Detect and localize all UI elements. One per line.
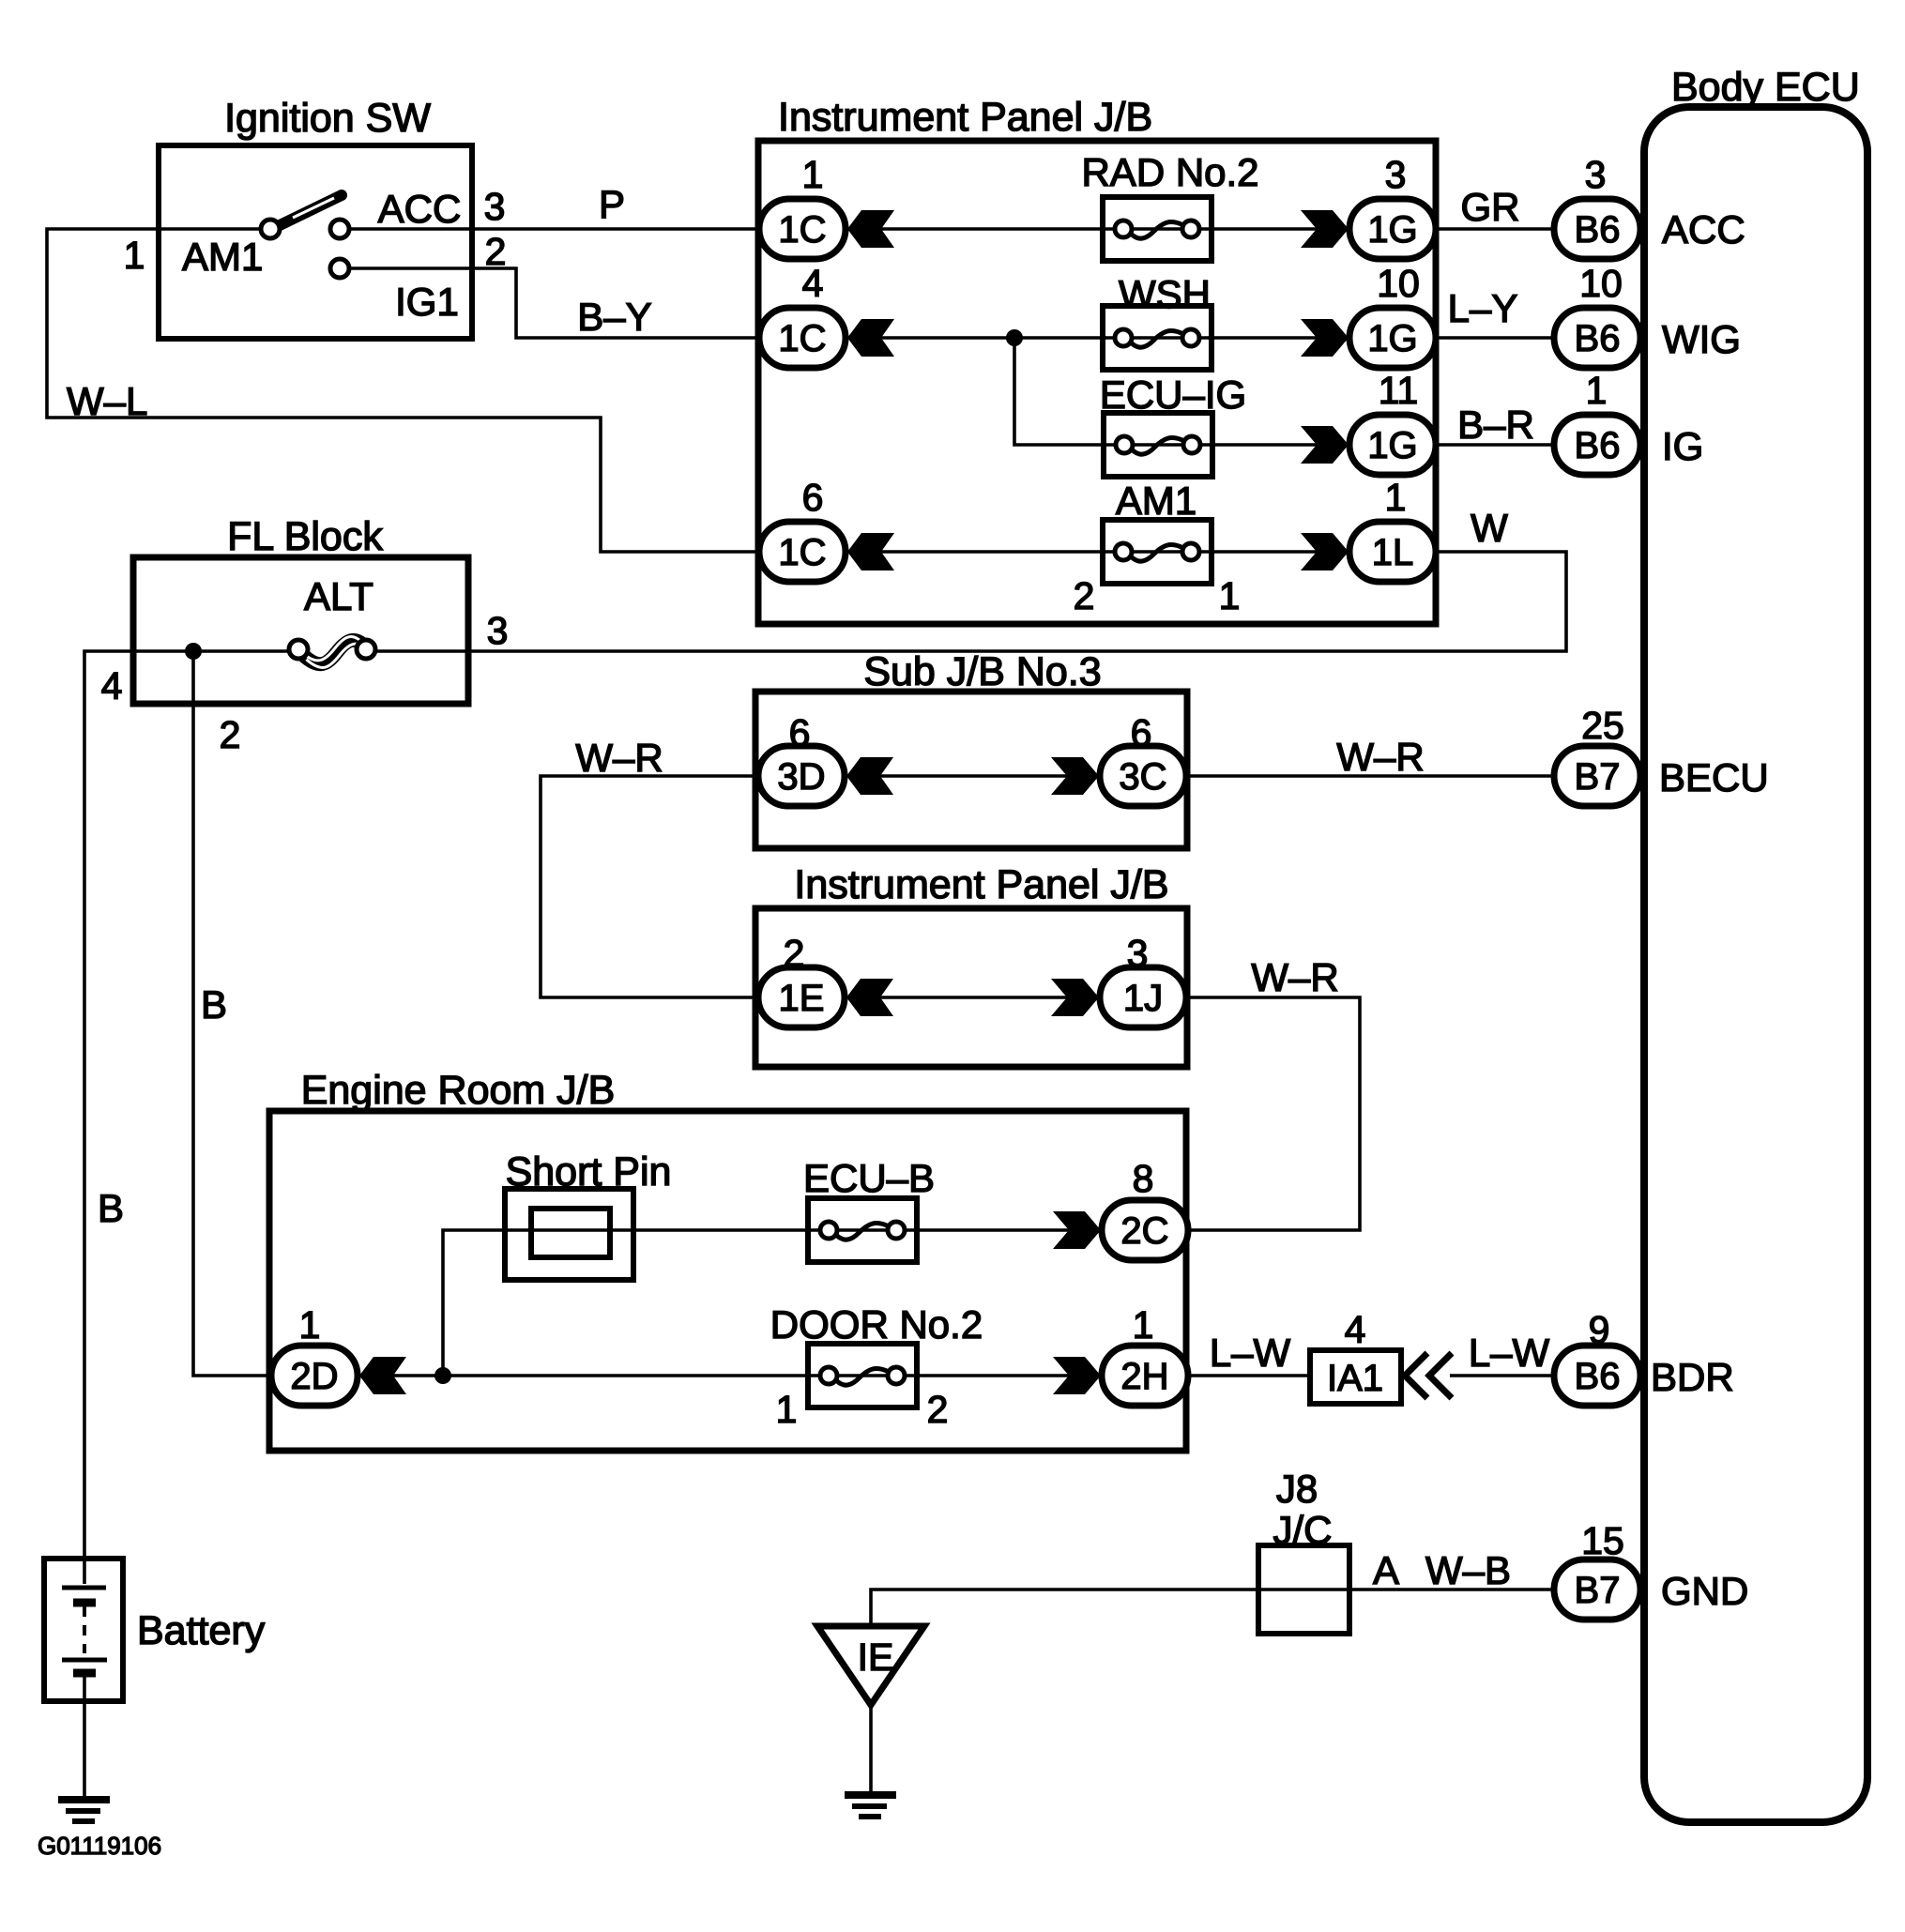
svg-text:W–B: W–B bbox=[1425, 1548, 1511, 1592]
wire: row4 1C to AM1 fuse bbox=[848, 550, 1105, 554]
svg-text:1: 1 bbox=[776, 1388, 798, 1431]
wire: 1E arrow to 1J arrow bbox=[847, 996, 1098, 999]
instrument panel J/B box 1 bbox=[758, 141, 1436, 624]
svg-text:ACC: ACC bbox=[378, 187, 462, 231]
battery bbox=[44, 1559, 123, 1701]
fuse ECU-IG bbox=[1104, 413, 1212, 477]
male arrow into 1G pin11 bbox=[1301, 426, 1349, 464]
svg-text:8: 8 bbox=[1133, 1157, 1154, 1200]
svg-text:2: 2 bbox=[1074, 574, 1095, 617]
svg-text:6: 6 bbox=[789, 711, 811, 754]
svg-text:10: 10 bbox=[1579, 262, 1623, 305]
wire L-W: 2H to IA1 bbox=[1184, 1374, 1310, 1377]
fuse DOOR No.2 bbox=[808, 1344, 917, 1407]
wire: short pin riser to ECU-B fuse bbox=[443, 1230, 810, 1376]
svg-text:ECU–B: ECU–B bbox=[803, 1156, 935, 1200]
wire L-Y: 1G to B6 WIG bbox=[1434, 336, 1556, 340]
connector B6 pin1 IG bbox=[1554, 415, 1640, 475]
connector B6 pin9 BDR bbox=[1554, 1346, 1640, 1406]
connector B7 pin25 BECU bbox=[1554, 746, 1640, 806]
svg-text:2: 2 bbox=[927, 1388, 949, 1431]
junction node: FL block pin2 bbox=[185, 643, 202, 660]
connector 2C pin8 bbox=[1102, 1200, 1188, 1260]
wire W-R: 3C to B7 BECU bbox=[1184, 774, 1556, 778]
wire: IE triangle stem to ground bbox=[869, 1703, 873, 1796]
ground connector IE triangle bbox=[817, 1626, 924, 1705]
connector IA1 box bbox=[1310, 1350, 1401, 1404]
connector 1E pin2 bbox=[758, 967, 845, 1027]
svg-text:Engine Room J/B: Engine Room J/B bbox=[301, 1068, 616, 1113]
ignition switch contact ACC pin3 bbox=[330, 220, 349, 238]
svg-text:IG1: IG1 bbox=[395, 280, 459, 324]
wire: ECU-IG fuse to 1G bbox=[1211, 443, 1348, 447]
svg-text:10: 10 bbox=[1377, 262, 1420, 305]
svg-text:3C: 3C bbox=[1119, 756, 1166, 798]
svg-text:2: 2 bbox=[784, 932, 805, 975]
fuse ECU-B bbox=[808, 1198, 917, 1262]
female arrow at 1C pin1 bbox=[847, 210, 894, 248]
svg-text:B6: B6 bbox=[1575, 318, 1621, 359]
svg-text:AM1: AM1 bbox=[182, 235, 263, 279]
short pin outer box bbox=[505, 1189, 633, 1280]
svg-text:Short Pin: Short Pin bbox=[506, 1149, 672, 1194]
svg-text:GND: GND bbox=[1661, 1569, 1748, 1613]
svg-text:J/C: J/C bbox=[1273, 1508, 1333, 1552]
female arrow at 1C pin4 bbox=[847, 319, 894, 357]
female arrow at 1C pin6 bbox=[847, 533, 894, 570]
wire: ACC contact to 1C pin1 bbox=[347, 227, 761, 231]
male arrow into 2H bbox=[1053, 1357, 1101, 1394]
svg-text:1J: 1J bbox=[1123, 978, 1163, 1019]
svg-text:1: 1 bbox=[802, 153, 824, 196]
svg-text:2D: 2D bbox=[290, 1356, 338, 1397]
svg-text:Sub J/B No.3: Sub J/B No.3 bbox=[863, 649, 1101, 694]
svg-text:A: A bbox=[1373, 1548, 1399, 1592]
svg-text:3: 3 bbox=[484, 185, 506, 228]
svg-text:Body ECU: Body ECU bbox=[1671, 65, 1860, 110]
svg-text:W–L: W–L bbox=[67, 379, 147, 423]
svg-text:ACC: ACC bbox=[1662, 207, 1745, 251]
svg-text:P: P bbox=[599, 182, 625, 226]
body ECU box bbox=[1644, 107, 1867, 1822]
svg-text:J8: J8 bbox=[1276, 1467, 1318, 1511]
connector 2H pin1 bbox=[1102, 1346, 1188, 1406]
svg-text:1C: 1C bbox=[778, 209, 826, 251]
wire: row2 1C to WSH fuse bbox=[848, 336, 1106, 340]
fuse WSH bbox=[1103, 306, 1212, 370]
svg-text:2C: 2C bbox=[1120, 1210, 1168, 1252]
svg-text:1G: 1G bbox=[1367, 209, 1417, 251]
male arrow into 1G pin3 bbox=[1301, 210, 1349, 248]
female arrow at 3D bbox=[846, 757, 893, 795]
male arrow into 1L pin1 bbox=[1301, 533, 1349, 570]
svg-text:ECU–IG: ECU–IG bbox=[1100, 373, 1246, 417]
svg-text:L–W: L–W bbox=[1210, 1331, 1291, 1375]
svg-text:WSH: WSH bbox=[1119, 272, 1211, 316]
svg-text:B7: B7 bbox=[1575, 756, 1621, 798]
male arrow into 2C bbox=[1053, 1211, 1101, 1249]
svg-text:B6: B6 bbox=[1575, 209, 1621, 251]
svg-text:DOOR No.2: DOOR No.2 bbox=[770, 1302, 983, 1346]
svg-text:9: 9 bbox=[1589, 1308, 1610, 1351]
junction connector J8 J/C box bbox=[1258, 1545, 1349, 1634]
wire: DOOR fuse to 2H bbox=[915, 1374, 1100, 1377]
svg-text:FL Block: FL Block bbox=[227, 514, 383, 559]
wire: 2D arrow to DOOR fuse bbox=[359, 1374, 810, 1377]
svg-text:4: 4 bbox=[1345, 1308, 1366, 1351]
svg-text:L–W: L–W bbox=[1469, 1331, 1550, 1375]
connector 1G pin10 bbox=[1349, 308, 1436, 368]
svg-text:4: 4 bbox=[101, 664, 123, 707]
svg-text:B: B bbox=[98, 1186, 124, 1230]
junction node: short pin tap bbox=[434, 1367, 451, 1384]
fuse AM1 bbox=[1103, 520, 1212, 584]
wire: 3D arrow to 3C arrow bbox=[847, 774, 1098, 778]
svg-text:1L: 1L bbox=[1372, 532, 1414, 573]
svg-text:4: 4 bbox=[802, 262, 824, 305]
svg-text:W–R: W–R bbox=[575, 736, 663, 780]
svg-text:BECU: BECU bbox=[1659, 755, 1769, 799]
svg-text:IE: IE bbox=[858, 1635, 894, 1679]
wire W-R: 1J loop down to 2C bbox=[1184, 997, 1360, 1230]
ground at IE bbox=[845, 1795, 896, 1817]
connector 1C pin1 bbox=[759, 199, 846, 259]
svg-text:1C: 1C bbox=[778, 532, 826, 573]
wire L-W: chevrons to B6 BDR bbox=[1450, 1374, 1556, 1377]
svg-text:B6: B6 bbox=[1575, 425, 1621, 466]
svg-text:B6: B6 bbox=[1575, 1356, 1621, 1397]
svg-text:2: 2 bbox=[220, 713, 241, 756]
fusible link ALT bbox=[289, 637, 375, 668]
svg-text:W–R: W–R bbox=[1336, 735, 1424, 779]
svg-text:1: 1 bbox=[1219, 574, 1241, 617]
FL block box bbox=[133, 557, 468, 704]
svg-text:WIG: WIG bbox=[1662, 317, 1741, 361]
wire: AM1 pin1 to left loop bbox=[47, 229, 761, 552]
engine room J/B box bbox=[269, 1111, 1186, 1451]
svg-text:L–Y: L–Y bbox=[1448, 286, 1518, 330]
svg-text:11: 11 bbox=[1379, 369, 1419, 412]
wire A W-B: IE riser to B7 GND bbox=[871, 1590, 1556, 1626]
svg-text:6: 6 bbox=[802, 476, 824, 519]
wire: row1 1C to RAD fuse bbox=[848, 227, 1105, 231]
wire W-R: 3D loop down to 1E bbox=[541, 776, 760, 997]
fuse RAD No.2 bbox=[1103, 197, 1212, 261]
ignition switch contact IG1 pin2 bbox=[330, 259, 349, 278]
svg-text:Ignition SW: Ignition SW bbox=[224, 96, 431, 141]
short pin inner box bbox=[531, 1209, 610, 1257]
male arrow into 1G pin10 bbox=[1301, 319, 1349, 357]
connector B6 pin3 ACC bbox=[1554, 199, 1640, 259]
svg-text:G01119106: G01119106 bbox=[38, 1832, 161, 1860]
svg-text:25: 25 bbox=[1581, 704, 1624, 747]
connector B6 pin10 WIG bbox=[1554, 308, 1640, 368]
wire: WSH fuse to 1G bbox=[1208, 336, 1348, 340]
svg-text:RAD No.2: RAD No.2 bbox=[1081, 150, 1258, 194]
svg-text:Instrument Panel J/B: Instrument Panel J/B bbox=[794, 862, 1168, 907]
connector 1G pin11 bbox=[1349, 415, 1436, 475]
wire B: FL block pin2 down to 2D bbox=[193, 651, 273, 1376]
sub J/B No.3 box bbox=[755, 692, 1187, 848]
svg-text:IA1: IA1 bbox=[1327, 1358, 1383, 1399]
junction node: WSH/ECU-IG split bbox=[1006, 329, 1023, 346]
svg-text:2H: 2H bbox=[1120, 1356, 1168, 1397]
ignition switch box bbox=[159, 145, 472, 339]
svg-text:1: 1 bbox=[1385, 476, 1407, 519]
connector 1C pin4 bbox=[759, 308, 846, 368]
svg-text:3D: 3D bbox=[777, 756, 825, 798]
svg-text:3: 3 bbox=[487, 609, 509, 652]
wire: ALT row left segment to battery drop bbox=[84, 651, 298, 1559]
svg-text:ALT: ALT bbox=[304, 574, 373, 618]
male arrow into 3C bbox=[1051, 757, 1099, 795]
svg-text:15: 15 bbox=[1581, 1519, 1624, 1562]
male arrow into 1J bbox=[1051, 979, 1099, 1016]
svg-text:B7: B7 bbox=[1575, 1570, 1621, 1611]
connector 3D pin6 bbox=[758, 746, 845, 806]
wire: AM1 fuse to 1L bbox=[1210, 550, 1348, 554]
wire: RAD fuse to 1G bbox=[1210, 227, 1348, 231]
svg-text:1: 1 bbox=[1586, 369, 1608, 412]
svg-text:AM1: AM1 bbox=[1116, 479, 1196, 523]
svg-text:3: 3 bbox=[1385, 153, 1407, 196]
svg-text:GR: GR bbox=[1461, 185, 1520, 229]
svg-text:Battery: Battery bbox=[137, 1608, 266, 1653]
connector 3C pin6 bbox=[1100, 746, 1186, 806]
female arrow at 1E bbox=[846, 979, 893, 1016]
wire: junction drop to ECU-IG fuse bbox=[1014, 338, 1105, 445]
female arrow at 2D bbox=[359, 1357, 406, 1394]
svg-text:W: W bbox=[1471, 506, 1508, 550]
svg-text:Instrument Panel J/B: Instrument Panel J/B bbox=[778, 95, 1152, 140]
instrument panel J/B box 2 bbox=[755, 908, 1187, 1067]
wire: battery stem to ground bbox=[83, 1676, 86, 1800]
double chevron into IA1 bbox=[1405, 1353, 1452, 1398]
svg-text:B–Y: B–Y bbox=[577, 295, 651, 339]
svg-text:6: 6 bbox=[1131, 711, 1152, 754]
svg-text:1: 1 bbox=[1133, 1303, 1154, 1346]
svg-text:1E: 1E bbox=[779, 978, 825, 1019]
connector 1C pin6 bbox=[759, 522, 846, 582]
svg-text:1G: 1G bbox=[1367, 425, 1417, 466]
connector 1L pin1 bbox=[1349, 522, 1436, 582]
svg-text:3: 3 bbox=[1585, 153, 1607, 196]
svg-text:B–R: B–R bbox=[1457, 403, 1534, 447]
connector B7 pin15 GND bbox=[1554, 1559, 1640, 1620]
wire: IG1 contact jog to 1C pin4 bbox=[349, 268, 761, 338]
svg-text:B: B bbox=[201, 982, 227, 1027]
wire: ECU-B fuse to 2C bbox=[915, 1228, 1100, 1232]
connector 1G pin3 bbox=[1349, 199, 1436, 259]
ignition switch lever bbox=[276, 195, 342, 227]
svg-text:3: 3 bbox=[1127, 932, 1149, 975]
svg-text:2: 2 bbox=[485, 230, 507, 273]
wire B-R: 1G to B6 IG bbox=[1434, 443, 1556, 447]
svg-text:1G: 1G bbox=[1367, 318, 1417, 359]
svg-text:BDR: BDR bbox=[1651, 1355, 1734, 1399]
svg-text:W–R: W–R bbox=[1251, 955, 1338, 999]
svg-text:1C: 1C bbox=[778, 318, 826, 359]
connector 2D pin1 bbox=[271, 1346, 358, 1406]
svg-text:1: 1 bbox=[299, 1303, 321, 1346]
svg-text:IG: IG bbox=[1662, 424, 1703, 468]
connector 1J pin3 bbox=[1100, 967, 1186, 1027]
svg-text:1: 1 bbox=[124, 234, 145, 277]
wire W: 1L down to ALT row bbox=[368, 552, 1566, 651]
wire GR: 1G to B6 ACC bbox=[1434, 227, 1556, 231]
ground at battery bbox=[58, 1800, 110, 1821]
ignition switch pivot AM1 bbox=[261, 220, 280, 238]
